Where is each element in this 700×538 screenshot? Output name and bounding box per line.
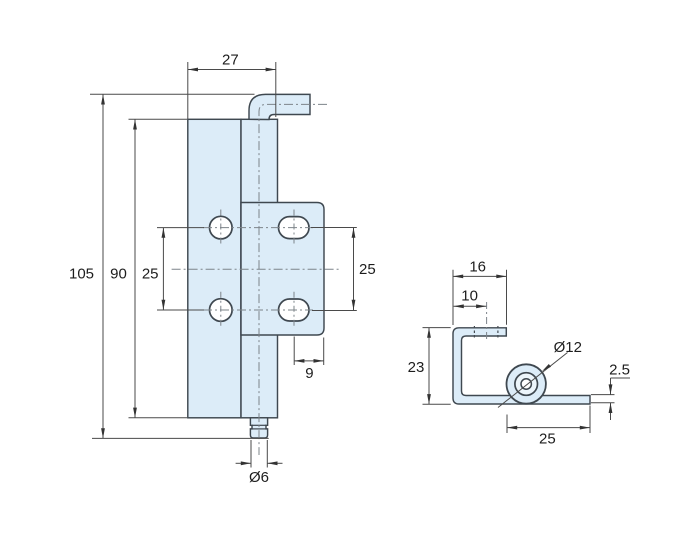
hole H2 vertical crosshair [220,292,222,329]
pin tip collar [250,418,267,438]
svg-text:25: 25 [142,266,159,283]
side profile bracket [453,328,590,404]
dimension 2.5 [591,378,630,420]
barrel outer circle [507,364,546,403]
svg-text:16: 16 [469,258,486,275]
dimension 25 left [157,228,204,310]
mid part centerline [172,268,340,270]
hidden hole edge left [473,326,475,338]
svg-text:25: 25 [539,431,556,448]
pin tip groove line 2 [252,428,266,430]
dimension 27 [188,62,276,119]
bent hinge pin arm [249,94,310,119]
svg-text:90: 90 [110,266,127,283]
right leaf flap [241,203,324,336]
svg-text:2.5: 2.5 [609,361,630,378]
knuckle barrel column [241,119,278,418]
slot S1 (oval, top-right) [279,217,310,239]
hole H2 (round, bottom-left) [210,299,233,322]
svg-text:Ø6: Ø6 [249,469,269,486]
svg-text:25: 25 [359,261,376,278]
dimension 23 [423,328,451,405]
hidden hole edge right [497,326,499,338]
pin tip groove line [252,424,266,426]
hole row centerline top [203,227,313,229]
slot S2 vertical crosshair [293,292,295,329]
dimension 9 [294,337,324,366]
dimension 105 [90,94,269,438]
hole row centerline bottom [203,309,313,311]
hole centerline on flange [486,302,488,341]
svg-text:10: 10 [461,288,478,305]
hole H1 (round, top-left) [210,216,233,239]
barrel middle circle [515,373,538,396]
svg-text:27: 27 [222,52,239,69]
dimension 10 [454,305,487,307]
dimension 90 [129,119,188,418]
dimension 25 right [311,228,357,311]
svg-text:105: 105 [69,266,94,283]
slot S2 (oval, bottom-right) [279,299,310,321]
svg-text:23: 23 [408,359,425,376]
dimension diameter 12 leader [498,353,568,408]
svg-text:9: 9 [305,365,313,382]
pin centerline (vertical + bend) [259,104,327,455]
dimension 16 [453,270,507,325]
hole H1 vertical crosshair [220,210,222,247]
dimension 25 side [507,406,590,434]
left leaf plate [188,119,241,418]
barrel inner circle [521,379,531,389]
svg-text:Ø12: Ø12 [554,339,582,356]
dimension diameter 6 [236,440,283,468]
slot S1 vertical crosshair [293,210,295,247]
